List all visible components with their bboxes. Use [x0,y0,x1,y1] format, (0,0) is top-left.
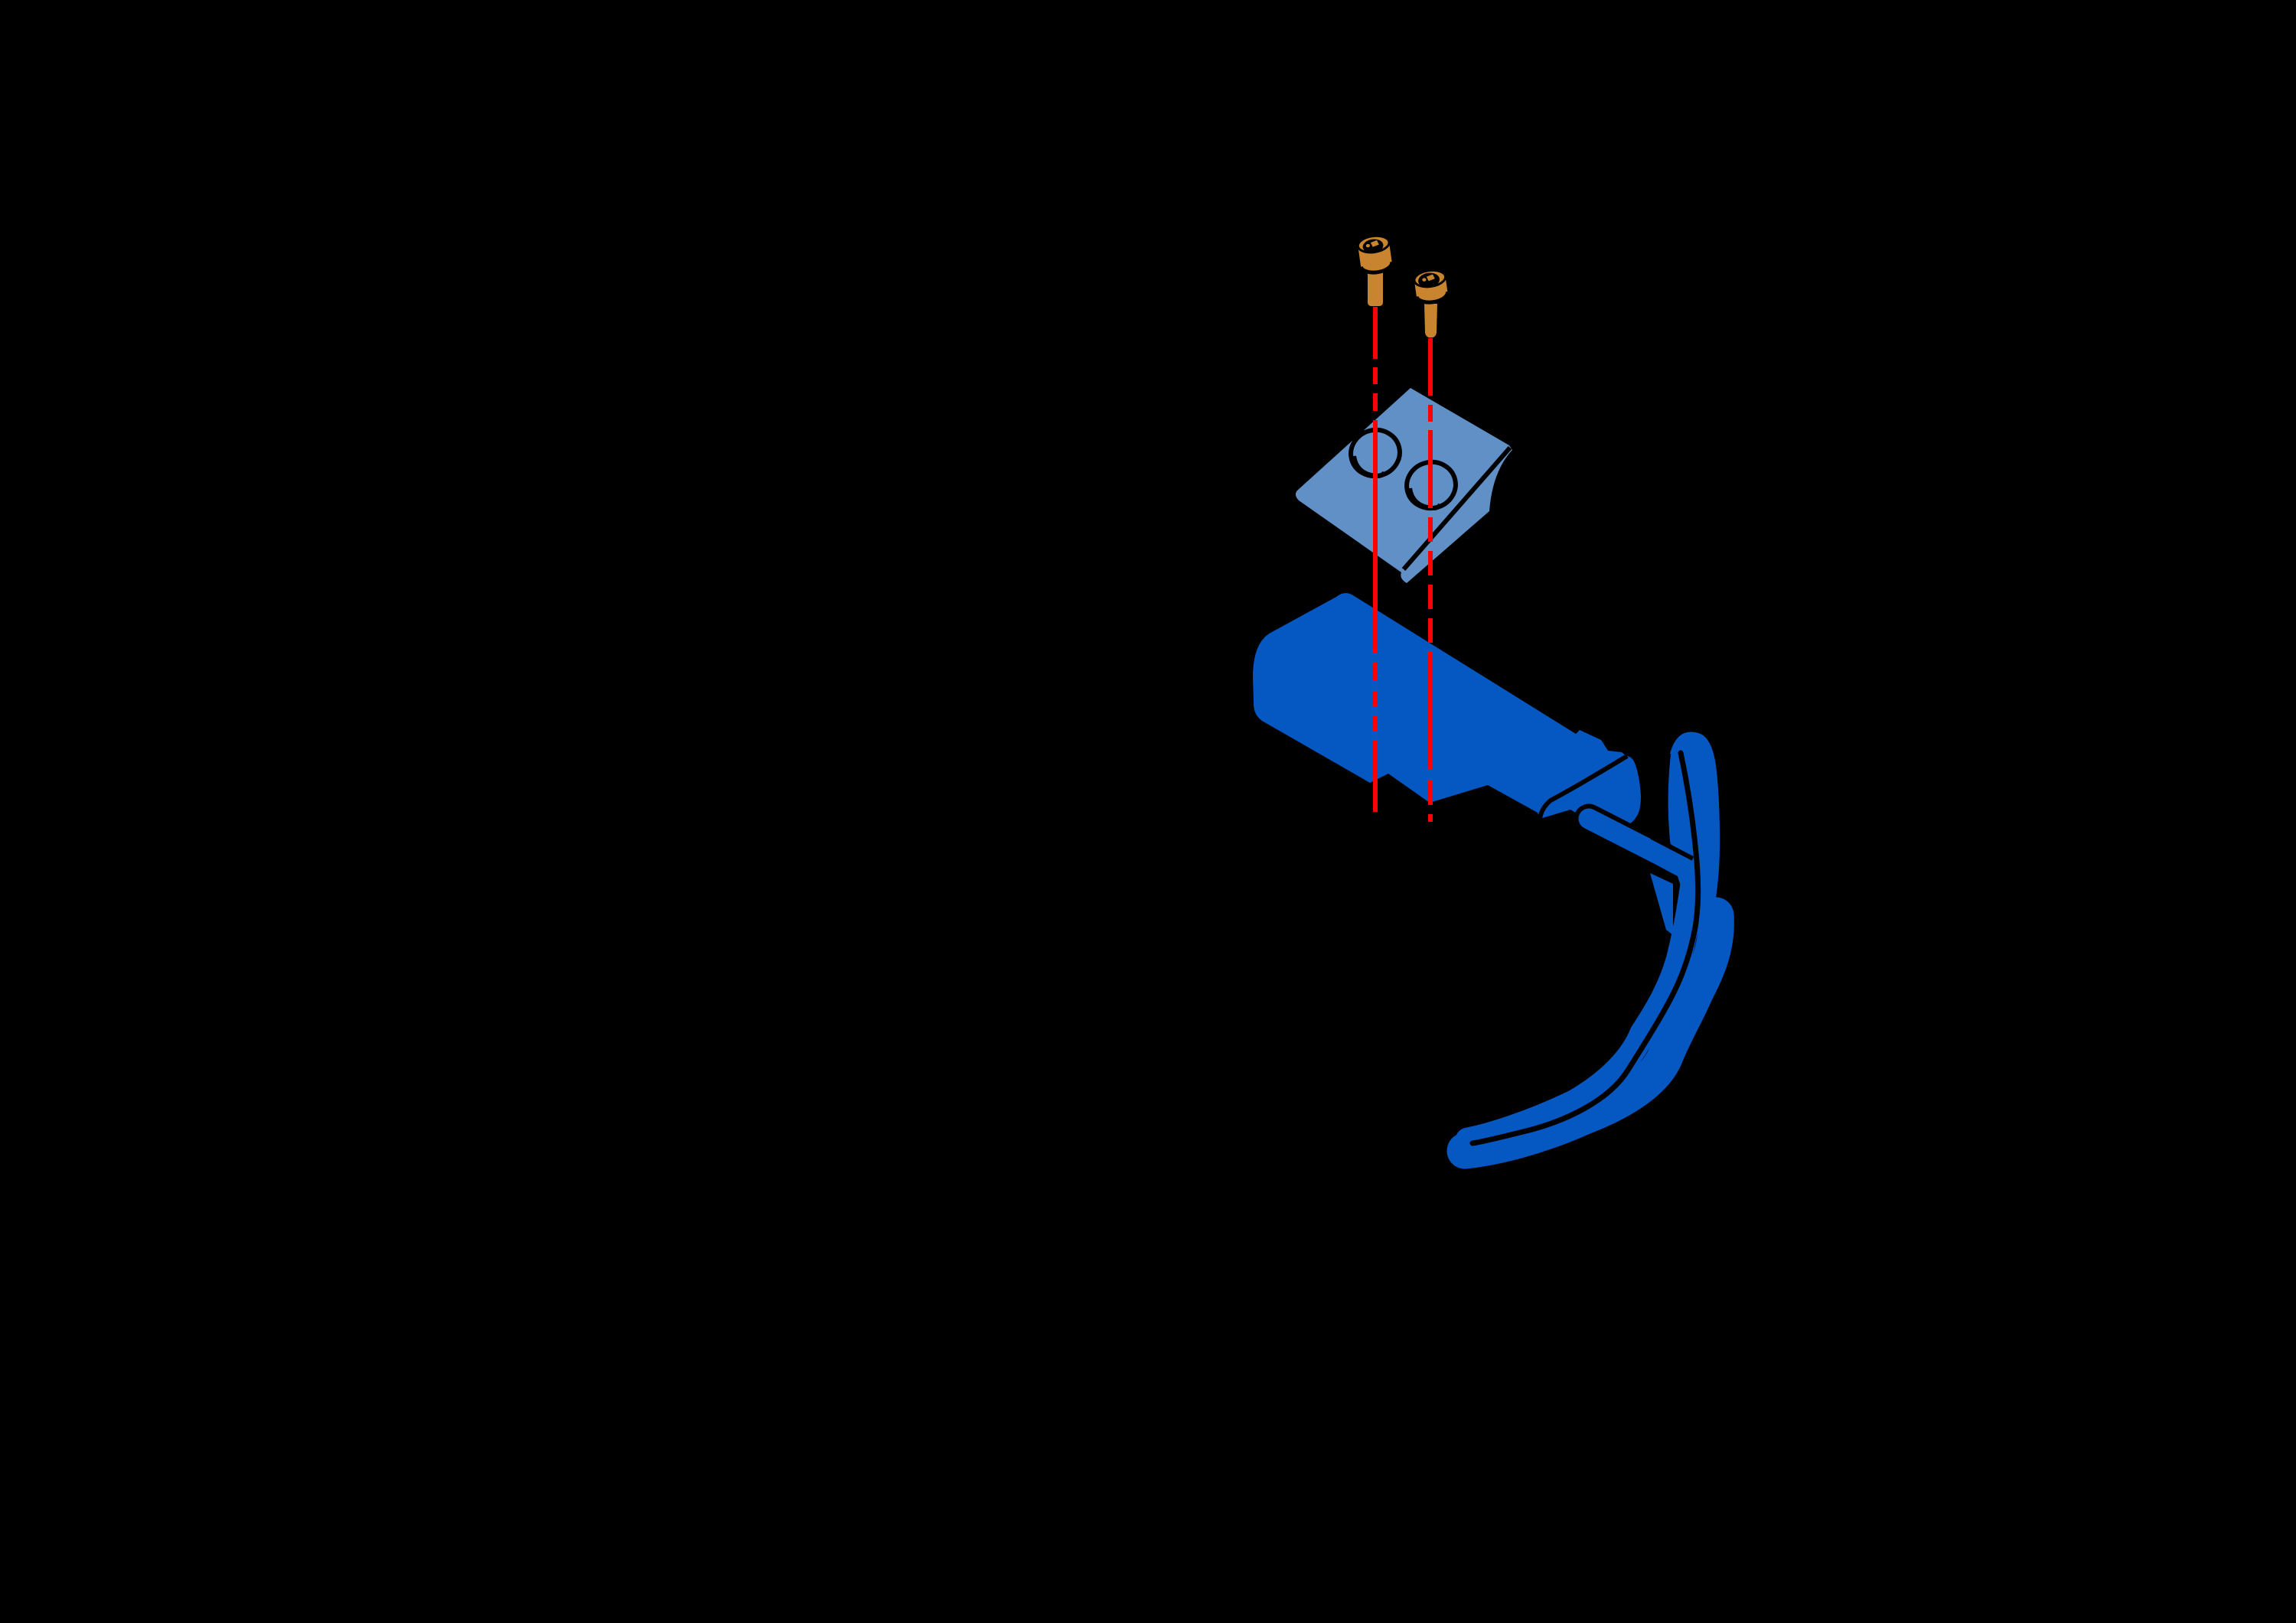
clamp hole 1 [1346,425,1405,481]
cable descending strand (behind, partly hidden) [1668,746,1701,886]
clamp plate (light blue) [1296,388,1512,583]
cap separation line [1540,756,1627,819]
screw 1 shaft [1368,268,1383,306]
screw 2 head [1413,269,1448,305]
cable lower strand of sweep [1465,915,1716,1151]
connector pill black outline [1589,819,1662,856]
cable inner crease line [1473,753,1698,1143]
screw 2 shaft [1424,304,1437,337]
device end cap [1540,756,1641,830]
device body (blue slab) [1253,593,1626,819]
cable upper strand of sweep (behind) [1468,885,1693,1140]
pill extension [1661,855,1694,873]
connector pill blue fill [1589,819,1662,856]
clamp fold edge [1404,448,1510,569]
clamp hole 2 [1402,457,1461,513]
red guide line left [1373,307,1378,812]
red guide line right [1428,338,1433,822]
cable ascending limb with apex [1670,732,1720,923]
mount tab [1650,873,1673,935]
screw 1 head [1357,234,1393,275]
